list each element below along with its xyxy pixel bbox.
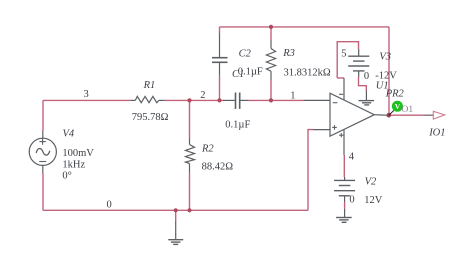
svg-text:C2: C2 xyxy=(239,49,252,60)
svg-text:4: 4 xyxy=(349,151,355,162)
svg-text:V4: V4 xyxy=(63,129,75,140)
svg-text:100mV: 100mV xyxy=(62,148,94,159)
svg-text:31.8312kΩ: 31.8312kΩ xyxy=(284,67,331,78)
svg-text:IO1: IO1 xyxy=(428,128,445,139)
svg-text:0°: 0° xyxy=(62,171,71,182)
svg-text:5: 5 xyxy=(341,48,346,59)
svg-text:R2: R2 xyxy=(201,144,214,155)
svg-text:0: 0 xyxy=(364,71,369,82)
svg-text:1: 1 xyxy=(290,90,295,101)
svg-text:3: 3 xyxy=(84,89,89,100)
svg-text:R3: R3 xyxy=(282,48,295,59)
svg-text:O1: O1 xyxy=(402,105,414,115)
svg-text:795.78Ω: 795.78Ω xyxy=(132,112,169,123)
svg-text:0: 0 xyxy=(107,199,112,210)
svg-text:0.1µF: 0.1µF xyxy=(225,120,250,131)
svg-text:12V: 12V xyxy=(364,195,383,206)
svg-text:V3: V3 xyxy=(379,52,391,63)
svg-text:2: 2 xyxy=(200,90,205,101)
svg-text:R1: R1 xyxy=(143,80,156,91)
svg-text:C1: C1 xyxy=(232,69,244,80)
svg-text:88.42Ω: 88.42Ω xyxy=(202,162,234,173)
svg-text:V2: V2 xyxy=(365,176,377,187)
svg-text:1kHz: 1kHz xyxy=(62,160,85,171)
svg-text:PR2: PR2 xyxy=(385,88,405,99)
svg-text:0: 0 xyxy=(349,194,354,205)
svg-text:V: V xyxy=(395,102,401,111)
